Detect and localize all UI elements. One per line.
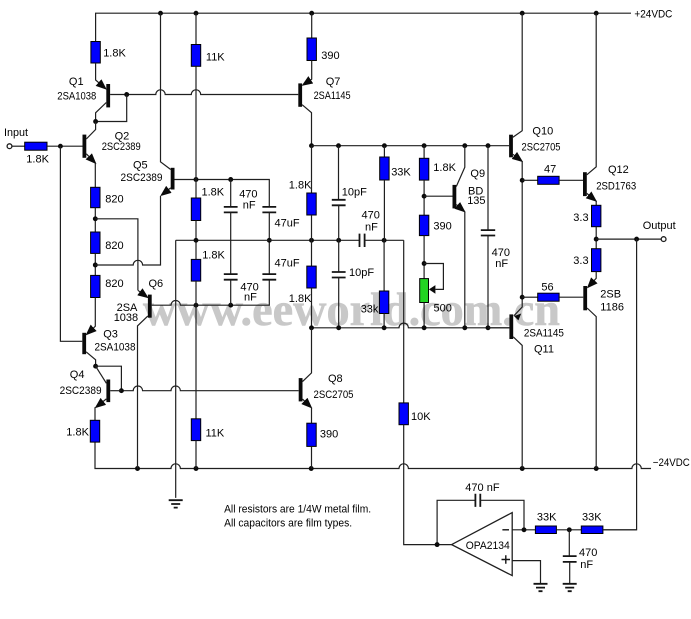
wire pot to bus [423,303,425,328]
transistor Q7 2SA1145 base bar [298,83,302,106]
capacitor 47uF lower [262,274,276,280]
wire op-amp output node [437,500,475,544]
resistor 1.8K (x312 upper) [307,193,316,215]
node mid bus x=196 [194,238,199,243]
wire 1.8K to mid bus (x312) [311,215,313,240]
wire 33K lower to bus [383,314,385,328]
wire Q4 collector diagonal [96,366,107,383]
svg-text:47uF: 47uF [275,258,300,270]
wire 470nF mid lead [230,212,232,274]
wire mid bus corner down to 10K [403,240,405,403]
input terminal [7,144,12,149]
resistor 10K [399,403,408,425]
wire Q5 base line [175,180,270,207]
wire 1.8K to lower bus (x312) [311,288,313,328]
transistor Q11 2SA1145 base bar [509,314,513,339]
svg-text:Q8: Q8 [328,373,343,385]
resistor 3.3 upper [592,205,601,226]
svg-text:1.8K: 1.8K [202,187,225,199]
svg-text:47: 47 [544,164,556,176]
wire pot wiper [424,264,443,290]
wire rail to 11K [195,13,197,44]
transistor Q1 2SA1038 base bar [106,84,110,107]
svg-text:Q1: Q1 [69,76,84,88]
op-amp minus sign [502,529,509,531]
svg-text:33K: 33K [582,512,602,524]
wire input to R [12,145,25,147]
wire 3.3 to output node [595,227,597,249]
wire rail to 390 (Q7) [311,13,313,38]
wire 56R to QB base [559,296,583,298]
wire inv input [512,529,535,531]
wire 820#2 to 820#3 [94,253,96,275]
resistor 3.3 lower [592,249,601,272]
wire Q4 emitter down [94,407,96,420]
node Q1 base/collector tie [124,92,129,97]
svg-text:390: 390 [433,221,451,233]
node mid bus x=339 [336,238,341,243]
node op-amp output [435,542,440,547]
wire between 33Ks [556,529,581,531]
svg-text:10pF: 10pF [342,187,367,199]
wire 33K junction to 470nF [568,530,570,556]
junction lower bus x=488 [486,325,491,330]
wire 470nF top lead [230,180,232,207]
svg-text:Q11: Q11 [534,344,554,356]
svg-text:Input: Input [4,127,28,139]
junction +24V rail x=160.5 [158,11,163,16]
resistor 1.8K input [25,142,47,150]
capacitor 470nF lower [224,274,238,280]
resistor 1.8K (Q1 emitter) [91,42,100,64]
wire Q8 collector [303,328,312,382]
svg-text:All resistors are 1/4W metal f: All resistors are 1/4W metal film. [224,504,371,516]
svg-text:+24VDC: +24VDC [634,9,672,21]
node Q5 base / 11K [194,177,199,182]
resistor 33K feedback 1 [535,526,556,534]
svg-text:33K: 33K [391,167,411,179]
wire Q9 base [424,195,452,197]
node Q6 base / 1.8K [194,303,199,308]
capacitor 47uF upper [262,207,276,213]
wire 470nF to ground [569,562,571,584]
ground symbol shunt cap [563,584,577,591]
resistor 1.8K (x312 lower) [307,266,316,288]
junction upper bus x=338.5 [336,143,341,148]
resistor 47 [538,176,559,184]
wire node to 56R [522,296,538,298]
wire mid bus left [176,239,360,241]
svg-text:820: 820 [105,278,123,290]
junction -24V rail x=596.2 [594,466,599,471]
svg-text:2SC2389: 2SC2389 [102,141,141,153]
wire node to 47R [522,179,538,181]
junction -24V rail x=522.2 [520,466,525,471]
wire R to Q2 base [47,145,83,147]
junction upper bus x=464.8 [462,143,467,148]
op-amp plus sign [502,555,511,564]
svg-text:10K: 10K [411,411,431,423]
node 820#1/#2 [93,216,98,221]
resistor 390 (Q8) [307,423,316,446]
svg-text:33K: 33K [537,512,557,524]
capacitor 10pF lower [332,272,346,278]
svg-text:nF: nF [580,559,593,571]
ground symbol main [169,500,183,507]
svg-text:470: 470 [579,547,597,559]
node mid bus x=311 [309,238,314,243]
resistor 33K lower [379,291,388,314]
wire mid bus to 10pF lower [338,240,340,272]
wire Q7 collector [302,105,311,146]
wire QB collector [587,308,596,469]
wire feedback cap to inv input [480,500,524,530]
svg-text:3.3: 3.3 [573,212,588,224]
node Q1/Q2 collectors [93,119,98,124]
wire node to 1.8K [195,180,197,199]
wire 11K to node [195,66,197,179]
wire output to feedback network [603,239,637,530]
wire +24V rail [96,13,631,41]
junction upper bus x=384.4 [382,143,387,148]
wire 11K bottom to rail [195,441,197,469]
wire 47uF mid lead [268,212,270,274]
svg-text:nF: nF [243,200,256,212]
svg-text:Q4: Q4 [70,369,85,381]
svg-text:56: 56 [541,282,553,294]
node Q3 collector / Q4 [93,364,98,369]
wire input node down to Q3 base [60,146,82,341]
junction lower bus x=311.5 [309,325,314,330]
node Q9 base [422,194,427,199]
wire Q9 emitter [456,205,464,212]
resistor 820 #3 [91,275,100,297]
node 33K junction [567,527,572,532]
svg-text:820: 820 [105,240,123,252]
wire upper bus [312,145,510,147]
node Q4 base [119,388,124,393]
wire Q8 base line [121,386,298,391]
resistor 390 (x424) [419,215,428,235]
wire Q6 base line to 11K bottom [195,305,197,419]
node 56R tap [520,295,525,300]
svg-text:2SA1038: 2SA1038 [95,342,136,354]
wire Q8 emitter [303,399,312,407]
wire 10K down to op-amp output [404,425,452,545]
svg-text:470 nF: 470 nF [465,482,500,494]
svg-text:1.8K: 1.8K [66,427,89,439]
svg-text:11K: 11K [206,52,225,64]
svg-text:OPA2134: OPA2134 [466,540,510,552]
wire bus to 10pF upper [338,146,340,200]
wire Q3 emitter [87,298,96,335]
wire bus to 1.8K lower [195,240,197,259]
resistor 820 #2 [91,232,100,253]
junction lower bus x=424.1 [422,325,427,330]
svg-text:33k: 33k [361,304,379,316]
wire Q6 collector [138,316,148,469]
node pot wiper tie [422,261,427,266]
svg-text:1.8K: 1.8K [26,154,49,166]
junction lower bus x=338.7 [336,325,341,330]
svg-text:820: 820 [105,194,123,206]
svg-text:500: 500 [434,303,452,315]
svg-text:2SB: 2SB [600,289,621,301]
svg-text:1186: 1186 [600,302,624,314]
svg-text:Output: Output [643,220,676,232]
svg-text:2SA1145: 2SA1145 [314,90,351,102]
wire mid bus to 33K lower [383,240,385,291]
svg-text:11K: 11K [206,428,225,440]
node input junction [58,144,63,149]
capacitor 470nF shunt [563,556,577,562]
junction +24V rail x=311.7 [309,11,314,16]
svg-text:390: 390 [321,50,339,62]
resistor 11K bottom [191,419,200,441]
wire Q10 emitter column [514,161,522,316]
wire to Q5 emitter [95,196,160,265]
wire Q12 collector [587,13,596,175]
ground symbol op-amp + [534,584,548,591]
transistor 2SB1186 base bar [583,286,587,310]
junction upper bus x=488 [486,143,491,148]
svg-text:3.3: 3.3 [573,255,588,267]
wire 1.8K to bus [195,221,197,241]
svg-text:2SA1038: 2SA1038 [57,90,96,102]
wire lower bus [312,323,510,328]
wire Q1 base-collector tie [96,95,127,122]
junction -24V rail x=196 [194,466,199,471]
wire mid bus right [365,239,404,241]
transistor Q3 2SA1038 base bar [82,333,86,354]
svg-text:1.8K: 1.8K [289,180,312,192]
wire 10pF to mid bus [338,205,340,240]
capacitor 470nF feedback [475,494,480,507]
wire Q4 emitter [96,399,106,407]
transistor Q6 2SA1038 base bar [148,295,152,318]
Q11 emitter arrowhead [514,314,521,321]
node 47uF mid [267,238,272,243]
wire Q5 emitter diagonal [162,188,171,195]
wire mid bus to 1.8K lower (x312) [311,240,313,266]
resistor 33K feedback 2 [581,526,603,534]
capacitor 10pF upper [332,200,346,206]
wire 470nF bottom lead [230,280,232,306]
wire non-inv input to ground [512,561,540,584]
svg-text:47uF: 47uF [275,218,300,230]
svg-text:Q3: Q3 [103,329,118,341]
svg-text:1038: 1038 [114,312,138,324]
svg-text:135: 135 [467,195,485,207]
wire Q12 emitter [587,193,596,200]
junction +24V rail x=522.2 [520,11,525,16]
resistor 11K top [191,45,200,67]
svg-text:−24VDC: −24VDC [653,457,690,469]
transistor Q8 2SC2705 base bar [299,378,303,401]
wire 1.8K to 390 (x424) [423,180,425,215]
wire Q11 collector [513,337,522,469]
wire mid bus to ground [175,240,177,498]
pot wiper arrowhead [429,285,436,294]
wire Q9 collector [456,146,465,187]
wire Q10 collector [513,13,522,137]
wire 820#1 to 820#2 [94,208,96,232]
wire Q7 emitter [303,61,312,86]
svg-text:2SC2705: 2SC2705 [522,142,561,154]
wire 390 to rail (Q8) [311,446,313,468]
svg-text:nF: nF [495,258,508,270]
wire Q6 emitter diagonal [138,290,148,297]
output terminal [661,237,666,242]
svg-text:470: 470 [362,210,380,222]
junction lower bus x=464.8 [462,325,467,330]
svg-text:2SC2705: 2SC2705 [314,389,354,401]
resistor 1.8K (x424) [419,158,428,180]
svg-text:nF: nF [365,222,378,234]
svg-text:Q5: Q5 [133,160,148,172]
node 470nF top [228,177,233,182]
wire Q2 emitter [86,154,95,163]
node inv input [522,527,527,532]
resistor 820 #1 [91,187,100,207]
transistor Q10 2SC2705 base bar [509,135,513,158]
node 47R tap [520,178,525,183]
capacitor 470nF series [360,234,365,247]
transistor Q5 2SC2389 base bar [171,168,175,190]
svg-text:10pF: 10pF [349,267,374,279]
wire Q8 emitter to 390 [311,407,313,423]
capacitor 470nF upper [224,207,238,213]
wire output line [596,238,661,240]
potentiometer 500 body [420,279,429,303]
wire Q11 base [488,327,509,329]
node Q7 collector bus [309,143,314,148]
wire 10pF lower to bus [338,278,340,328]
svg-text:390: 390 [320,429,338,441]
wire Q5 collector to rail [161,13,171,169]
wire Q3 collector [86,352,96,366]
resistor 1.8K upper mid [191,198,200,221]
transistor Q2 2SC2389 base bar [83,135,87,158]
wire Q9 emitter down [464,211,466,327]
svg-text:Q12: Q12 [608,164,629,176]
wire Q1 emitter [96,63,106,89]
junction -24V rail x=137.5 [135,466,140,471]
wire 47R to Q12 base [559,179,583,181]
svg-text:nF: nF [244,292,257,304]
wire bus to 33K [383,146,385,157]
wire Q2 emitter down [94,163,96,187]
junction -24V rail x=311.2 [309,466,314,471]
svg-text:Q6: Q6 [149,278,164,290]
resistor 1.8K lower mid [191,259,200,281]
wire QB emitter [588,272,596,288]
junction +24V rail x=596.2 [594,11,599,16]
wire 33K to mid bus [383,180,385,240]
junction upper bus x=424.1 [422,143,427,148]
junction lower bus x=384.1 [382,325,387,330]
wire -24V rail [95,442,651,468]
wire Q12 emitter to 3.3 [595,201,597,206]
wire Q7 node to 1.8K [311,146,313,193]
wire 33K to feedback column [603,529,637,531]
wire Q4 collector-base tie [96,366,122,391]
transistor Q4 2SC2389 base bar [106,380,110,403]
wire bus to 470nF (x488) [487,146,489,230]
wire Q6 base line [152,280,270,306]
wire Q4 base stub [110,390,121,392]
svg-text:1.8K: 1.8K [433,162,456,174]
resistor 33K upper [380,157,389,180]
wire 1.8K to Q6 base line [195,281,197,305]
wire Q2 collector [86,122,95,140]
wire 390 to pot [423,236,425,279]
svg-text:1.8K: 1.8K [202,250,225,262]
svg-text:1.8K: 1.8K [103,48,126,60]
resistor 56 [538,293,559,301]
wire Q1 base line to Q7 [110,90,298,95]
svg-text:Q7: Q7 [326,76,341,88]
svg-text:1.8K: 1.8K [289,293,312,305]
junction +24V rail x=196 [194,11,199,16]
wire Q1 collector [96,103,107,122]
resistor 1.8K (Q4 emitter) [90,420,99,442]
node 470nF bottom [228,303,233,308]
node mid bus x=384 [382,238,387,243]
wire bus to 1.8K (x424) [423,146,425,159]
wire 470nF to bus (x488) [487,236,489,328]
node feedback tap [634,237,639,242]
wire to Q6 emitter [95,219,138,290]
svg-text:Q10: Q10 [532,126,553,138]
wire Q10 emitter [513,154,522,161]
svg-text:All capacitors are film types.: All capacitors are film types. [224,518,352,530]
svg-text:2SD1763: 2SD1763 [596,181,636,193]
node 820#2/#3 [93,263,98,268]
resistor 390 (Q7) [307,38,316,61]
svg-text:2SC2389: 2SC2389 [60,385,102,397]
node output [594,237,599,242]
transistor Q9 BD135 base bar [453,185,457,209]
capacitor 470nF (x488) [481,230,495,235]
svg-text:2SC2389: 2SC2389 [121,172,163,184]
svg-text:Q9: Q9 [470,168,485,180]
transistor Q12 2SD1763 base bar [583,172,587,196]
op-amp U1 OPA2134 triangle [452,513,513,576]
svg-text:2SA1145: 2SA1145 [524,328,564,340]
